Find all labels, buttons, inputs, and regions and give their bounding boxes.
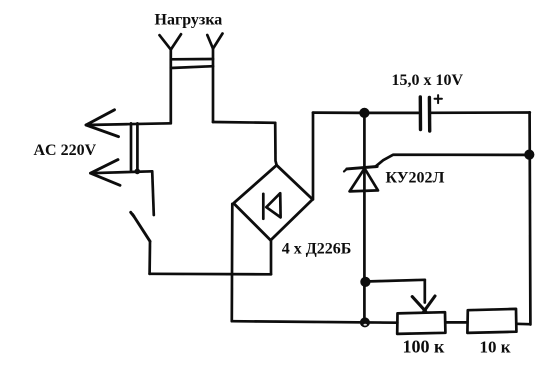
svg-text:AC 220V: AC 220V xyxy=(34,142,97,159)
svg-text:100 к: 100 к xyxy=(403,337,446,357)
svg-text:Нагрузка: Нагрузка xyxy=(155,12,223,29)
svg-text:КУ202Л: КУ202Л xyxy=(386,170,445,187)
svg-text:10 к: 10 к xyxy=(480,338,511,357)
svg-text:4 х Д226Б: 4 х Д226Б xyxy=(282,241,352,258)
svg-text:15,0 x 10V: 15,0 x 10V xyxy=(392,72,464,89)
